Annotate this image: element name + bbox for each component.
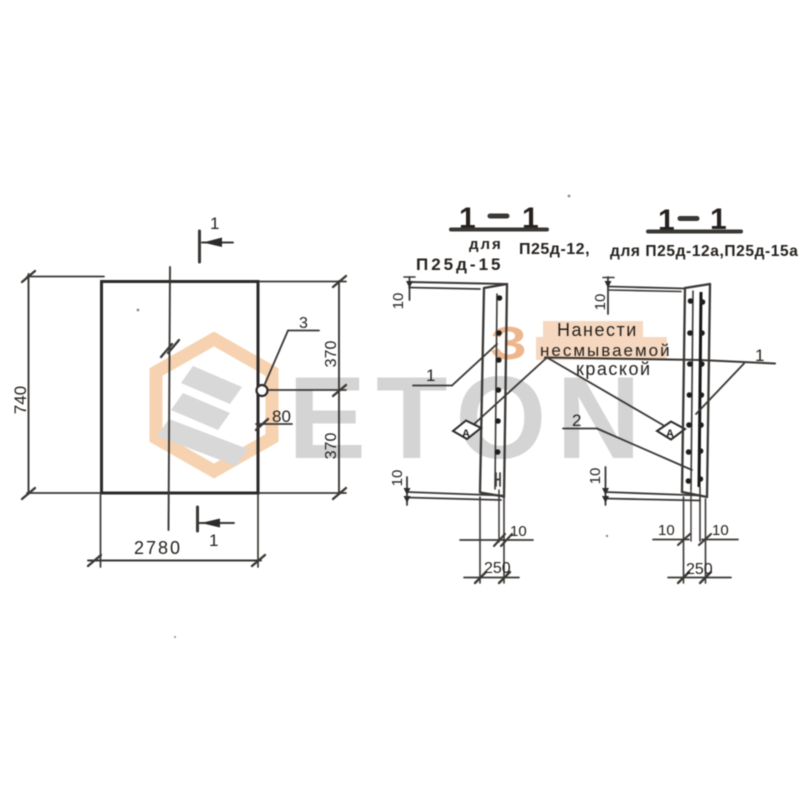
svg-text:10: 10 — [510, 523, 527, 540]
svg-text:250: 250 — [686, 561, 713, 578]
extension lines below right section — [683, 497, 685, 583]
svg-text:для: для — [469, 236, 503, 253]
dimension 2780 — [88, 495, 265, 567]
highlight behind annotation text — [543, 321, 643, 342]
annotation text — [540, 320, 672, 379]
title 1-1 left — [416, 202, 590, 274]
section body left — [480, 284, 507, 497]
svg-text:740: 740 — [11, 386, 30, 414]
rebar dots left section — [495, 295, 503, 455]
svg-text:10: 10 — [592, 294, 609, 311]
svg-text:краской: краской — [576, 359, 652, 379]
svg-text:1: 1 — [755, 346, 764, 365]
svg-text:370: 370 — [323, 341, 340, 368]
svg-text:1: 1 — [210, 214, 219, 233]
svg-text:1: 1 — [209, 531, 218, 550]
panel outline (plan view) — [102, 282, 259, 494]
bottom flange right section — [605, 492, 707, 501]
break mark — [161, 340, 179, 357]
svg-text:10: 10 — [587, 468, 604, 485]
svg-text:Нанести: Нанести — [557, 320, 638, 340]
dim 10 top right section — [592, 277, 614, 314]
watermark hexagon logo — [156, 339, 272, 471]
dim 250 left section — [464, 560, 519, 583]
leader 2 — [563, 411, 692, 470]
hole circle detail 3 — [257, 385, 268, 396]
diamond mark A left — [453, 421, 481, 441]
svg-text:80: 80 — [272, 407, 291, 426]
svg-text:П25д-15: П25д-15 — [416, 255, 504, 274]
leader 1 left section — [413, 344, 497, 386]
diamond mark A right — [657, 422, 685, 441]
dim 10 web left section — [460, 523, 533, 546]
dims 10 10 below right section — [653, 522, 738, 545]
svg-text:10: 10 — [389, 470, 406, 487]
dimension 80 — [256, 407, 292, 430]
section mark 1 top — [200, 214, 234, 262]
section mark 1 bottom — [198, 507, 235, 550]
leaders from text to diamonds — [472, 358, 547, 427]
svg-text:10: 10 — [390, 293, 407, 310]
section body right — [682, 284, 710, 497]
svg-text:П25д-12,: П25д-12, — [519, 241, 590, 258]
panel joint line — [169, 267, 171, 530]
dim 10 bottom right section — [587, 467, 609, 505]
dim 250 right section — [668, 561, 731, 583]
svg-text:A: A — [462, 428, 470, 440]
svg-text:250: 250 — [484, 560, 511, 577]
dimensions 370 / 370 right of panel — [260, 276, 346, 499]
dimension 740 — [11, 271, 104, 499]
rebar dots right section col B — [698, 299, 706, 482]
small mark bottom of left section — [496, 473, 500, 486]
svg-text:3: 3 — [299, 315, 308, 332]
svg-text:10: 10 — [712, 522, 729, 539]
rebar dots right section col A — [686, 298, 694, 484]
svg-text:A: A — [666, 428, 674, 440]
svg-text:2780: 2780 — [134, 538, 182, 558]
svg-text:2: 2 — [572, 411, 581, 430]
top flange right section — [608, 287, 685, 289]
title 1-1 right — [610, 203, 798, 260]
paper specks — [137, 195, 609, 638]
leader 1 right section — [696, 346, 764, 414]
svg-text:10: 10 — [658, 522, 675, 539]
long underline / leader line — [545, 358, 775, 364]
bottom flange left section — [407, 492, 504, 500]
dim 10 top left section — [390, 277, 415, 309]
svg-text:370: 370 — [323, 433, 340, 460]
svg-text:1: 1 — [426, 366, 435, 385]
extension lines below left section — [479, 497, 481, 583]
dim 10 bottom left section — [389, 470, 411, 505]
svg-text:для П25д-12а,П25д-15а: для П25д-12а,П25д-15а — [610, 243, 798, 260]
top flange left section — [409, 282, 506, 284]
leader 3 — [264, 315, 319, 386]
